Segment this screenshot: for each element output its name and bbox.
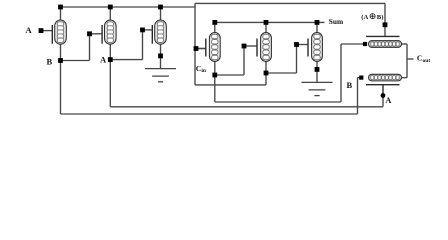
svg-text:Sum: Sum — [329, 17, 344, 26]
svg-text:(A: (A — [361, 14, 368, 21]
svg-text:Cout: Cout — [417, 54, 430, 64]
svg-text:A: A — [100, 54, 107, 64]
svg-text:B): B) — [377, 14, 384, 21]
svg-text:A: A — [385, 95, 392, 105]
svg-text:B: B — [47, 57, 53, 67]
svg-text:A: A — [26, 25, 33, 35]
svg-text:Cin: Cin — [196, 64, 207, 74]
svg-text:B: B — [347, 80, 353, 90]
